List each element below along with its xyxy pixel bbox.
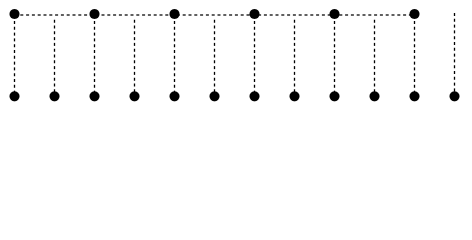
top node dot 3 xyxy=(169,9,179,19)
vertical dashed wire column 6 xyxy=(214,20,216,96)
top node dot 5 xyxy=(329,9,339,19)
bottom node dot 1 xyxy=(9,91,19,101)
top node dot 4 xyxy=(249,9,259,19)
bottom node dot 4 xyxy=(129,91,139,101)
vertical dashed wire column 2 xyxy=(54,20,56,96)
bottom node dot 8 xyxy=(289,91,299,101)
bottom node dot 10 xyxy=(369,91,379,101)
vertical dashed wire column 1 xyxy=(14,21,16,96)
top node dot 2 xyxy=(89,9,99,19)
vertical dashed wire column 7 xyxy=(254,21,256,96)
vertical dashed wire column 11 xyxy=(414,21,416,96)
vertical dashed wire column 9 xyxy=(334,21,336,96)
top node dot 6 xyxy=(409,9,419,19)
vertical dashed wire column 3 xyxy=(94,21,96,96)
top node dot 1 xyxy=(9,9,19,19)
bottom node dot 6 xyxy=(209,91,219,101)
vertical dashed wire column 4 xyxy=(134,20,136,96)
vertical dashed wire column 8 xyxy=(294,20,296,96)
vertical dashed wire column 10 xyxy=(374,20,376,96)
vertical dashed wire column 12 xyxy=(454,13,456,96)
bottom node dot 2 xyxy=(49,91,59,101)
bottom node dot 7 xyxy=(249,91,259,101)
bottom node dot 12 xyxy=(449,91,459,101)
bottom node dot 11 xyxy=(409,91,419,101)
horizontal dashed wire (top bus) xyxy=(15,14,415,16)
vertical dashed wire column 5 xyxy=(174,21,176,96)
bottom node dot 3 xyxy=(89,91,99,101)
bottom node dot 9 xyxy=(329,91,339,101)
bottom node dot 5 xyxy=(169,91,179,101)
